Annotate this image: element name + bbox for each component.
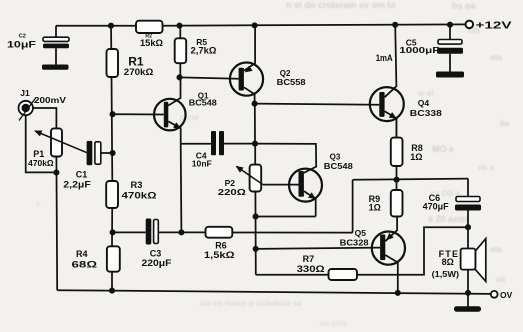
node junction dot P1 bottom (53, 169, 59, 175)
wire node rail Q2 collector down to C4 node (254, 104, 256, 144)
wire Q3 emitter to mid rail (256, 216, 316, 218)
node junction dot Q5 base line (253, 246, 259, 252)
svg-text:n st do croteram sv om ta: n st do croteram sv om ta (286, 0, 397, 10)
svg-text:220Ω: 220Ω (218, 187, 246, 197)
svg-text:1mA: 1mA (376, 53, 393, 63)
svg-text:470μF: 470μF (423, 201, 449, 211)
node junction dot R5 top (176, 23, 182, 29)
svg-text:+12V: +12V (476, 20, 512, 31)
capacitor C3 220uF (113, 219, 182, 268)
resistor R5 2.7k (175, 26, 217, 78)
svg-text:R4: R4 (76, 249, 88, 259)
wire output node line (353, 179, 468, 180)
wire R6 to output riser (232, 232, 352, 234)
svg-text:R7: R7 (303, 254, 315, 264)
wire bottom rail (57, 290, 490, 294)
svg-text:a 20 axist: a 20 axist (428, 214, 469, 224)
node junction dot Q5 collector on bottom rail (395, 290, 401, 296)
svg-text:ula: ula (490, 245, 502, 254)
resistor R4 68 (72, 246, 120, 271)
node junction dot C3 left (110, 229, 116, 235)
svg-text:330Ω: 330Ω (297, 264, 326, 274)
wire R3 to R4 segment (111, 208, 113, 246)
wire Q3 collector to C4 node (255, 144, 316, 173)
node junction dot Q3 emitter line (253, 213, 259, 219)
terminal 0V (491, 290, 513, 300)
ground symbol (454, 293, 481, 311)
svg-text:470kΩ: 470kΩ (28, 158, 54, 168)
svg-text:270kΩ: 270kΩ (124, 67, 154, 77)
wire P1 wiper arrow to C1 (34, 131, 86, 153)
resistor R7 330 (297, 254, 357, 280)
svg-text:Q4: Q4 (418, 98, 430, 108)
wire Q2 collector to Q4 base (255, 104, 380, 105)
svg-text:ns a: ns a (478, 163, 495, 172)
svg-text:ie el: ie el (418, 89, 434, 98)
svg-text:Q2: Q2 (280, 69, 291, 78)
svg-text:1,5kΩ: 1,5kΩ (204, 250, 235, 260)
svg-text:Q3: Q3 (330, 152, 341, 161)
wire R1 top stub (110, 26, 112, 49)
jack J1 input (19, 88, 67, 121)
svg-text:J1: J1 (20, 88, 30, 98)
svg-text:68Ω: 68Ω (72, 259, 98, 269)
wire Q1 emitter rail down to feedback node (180, 144, 183, 233)
resistor R2 15k in rail (136, 21, 164, 48)
node junction dot Q1 emitter / R6 / C3 (178, 229, 184, 235)
svg-text:R3: R3 (131, 180, 143, 190)
wire R4 to bottom rail (111, 272, 113, 291)
node junction dot R1 top on rail (108, 23, 114, 29)
svg-text:MO e: MO e (432, 144, 454, 154)
potentiometer P2 220 (218, 165, 261, 197)
svg-text:1Ω: 1Ω (410, 152, 422, 162)
node junction dot C5 top (447, 22, 453, 28)
svg-text:C3: C3 (150, 248, 162, 258)
wire J1 sleeve down (26, 115, 57, 172)
transistor Q2 BC558 (230, 26, 306, 104)
transistor Q4 BC338 (370, 25, 442, 138)
svg-text:sb: sb (496, 275, 505, 284)
resistor R6 1.5k (204, 227, 235, 260)
wire feedback node to R6 (181, 231, 205, 233)
capacitor C4 10nF (181, 131, 255, 168)
node junction dot C6 / speaker / R7 (465, 224, 471, 230)
node junction dot Q4 collector top (392, 22, 398, 28)
transistor Q3 BC548 (289, 152, 353, 216)
svg-text:R6: R6 (215, 240, 227, 250)
svg-text:2,7kΩ: 2,7kΩ (191, 45, 217, 55)
svg-text:10nF: 10nF (192, 158, 212, 168)
label 1mA (376, 53, 393, 63)
transistor Q5 BC328 (340, 217, 405, 293)
svg-text:BC338: BC338 (410, 108, 442, 118)
wire Q1 base from bias rail (113, 113, 164, 115)
svg-text:2,2μF: 2,2μF (63, 179, 91, 189)
wire Q5-base-node to R7 (256, 274, 329, 276)
node junction dot C4 right / Q3 collector / P2 top (252, 141, 258, 147)
wire Q5 base line (256, 248, 380, 249)
svg-text:220μF: 220μF (142, 258, 172, 268)
svg-text:e: e (36, 199, 41, 208)
capacitor C6 470uF (423, 179, 481, 228)
node junction dot R4 bottom on rail (109, 288, 115, 294)
capacitor C5 1000uF (399, 25, 464, 78)
resistor R3 470k (106, 180, 157, 208)
node junction dot C1 out (110, 150, 116, 156)
wire left bias rail R1 to R3 (111, 77, 114, 181)
terminal +12V (466, 20, 512, 31)
node junction dot R5 bottom / Q1 collector / Q2 base (176, 74, 182, 80)
svg-text:BC548: BC548 (324, 162, 354, 171)
svg-text:ota: ota (490, 53, 503, 62)
svg-text:BC558: BC558 (277, 78, 307, 87)
resistor R1 270k (107, 49, 154, 77)
svg-text:10μF: 10μF (7, 39, 37, 49)
svg-text:(1,5W): (1,5W) (432, 269, 460, 279)
wire C2 stub from rail (55, 26, 57, 38)
node junction dot Q2 emitter top (252, 22, 258, 28)
capacitor C2 (7, 34, 69, 70)
node junction dot speaker bottom (465, 290, 471, 296)
svg-text:1000μF: 1000μF (399, 45, 439, 55)
svg-text:200mV: 200mV (34, 96, 67, 105)
wire R7 to speaker node (357, 227, 468, 275)
svg-text:bs oa: bs oa (452, 1, 477, 11)
node junction dot output node (394, 177, 400, 183)
svg-text:ba: ba (500, 119, 510, 128)
wire P1 bottom to bottom rail (55, 157, 58, 291)
svg-text:BC548: BC548 (189, 99, 218, 108)
resistor R8 1 ohm (391, 119, 423, 180)
wire P2 top stub (254, 144, 256, 165)
svg-text:so erto: so erto (320, 319, 347, 328)
wire P2 bottom rail down (254, 192, 256, 275)
wire J1 tip to P1 top (33, 108, 56, 128)
svg-text:OV: OV (500, 290, 513, 300)
wire top rail right segment (+12V rail, R2 to terminal) (163, 24, 467, 25)
resistor R9 1 ohm (369, 180, 403, 217)
svg-text:picio: picio (180, 113, 199, 122)
svg-text:BC328: BC328 (340, 238, 369, 248)
svg-text:am es noem tr ecledima se: am es noem tr ecledima se (200, 299, 302, 308)
speaker FTE 8 ohm (432, 227, 486, 293)
svg-text:1Ω: 1Ω (369, 203, 381, 213)
transistor Q1 BC548 (154, 77, 217, 143)
svg-text:Q5: Q5 (355, 228, 367, 238)
wire Q2 base from Q1 collector node (180, 77, 239, 78)
svg-text:C1: C1 (76, 169, 88, 179)
svg-text:15kΩ: 15kΩ (140, 38, 164, 48)
node junction dot Q2 collector / Q4 base (252, 101, 258, 107)
node junction dot Q1 base (110, 111, 116, 117)
wire top rail left segment (C2/R1 node to R2) (56, 25, 136, 27)
wire output riser vertical (352, 180, 354, 233)
wire P2 wiper arrow to Q3 base (236, 166, 299, 185)
potentiometer P1 470k (28, 128, 62, 168)
svg-text:8Ω: 8Ω (442, 257, 454, 267)
svg-text:470kΩ: 470kΩ (122, 190, 158, 200)
capacitor C1 2.2uF (63, 141, 112, 189)
